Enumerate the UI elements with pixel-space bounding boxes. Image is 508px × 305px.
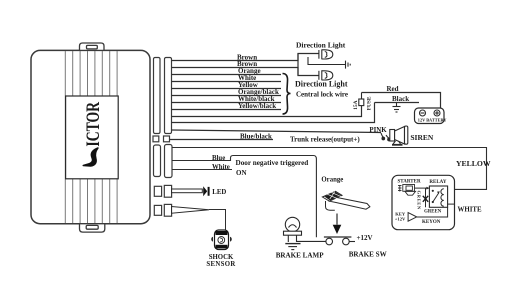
svg-text:White: White xyxy=(212,164,230,171)
svg-text:ICTOR: ICTOR xyxy=(82,101,104,147)
black wire to ground/battery xyxy=(375,102,420,104)
wire W8 yellow/black xyxy=(172,109,282,111)
svg-text:SHOCK: SHOCK xyxy=(209,254,234,261)
antenna wire (tapered) to shock sensor xyxy=(172,207,209,214)
svg-text:PINK: PINK xyxy=(369,127,387,134)
svg-text:FUSE: FUSE xyxy=(366,96,372,110)
svg-text:+12V: +12V xyxy=(357,234,373,242)
svg-text:LED: LED xyxy=(212,189,226,196)
wire W11 pink to siren xyxy=(172,130,382,133)
svg-text:Direction Light: Direction Light xyxy=(296,41,346,50)
wire W9 to fuse xyxy=(172,106,362,117)
brake switch SW1 xyxy=(297,237,356,245)
starter motor symbol xyxy=(398,185,416,196)
svg-text:Direction Light: Direction Light xyxy=(295,80,348,89)
svg-text:KEYON: KEYON xyxy=(422,220,441,225)
svg-text:+12V: +12V xyxy=(395,217,406,222)
wire W3 orange xyxy=(172,74,282,76)
lamp L1 (direction light) xyxy=(319,49,333,59)
wire W4 white xyxy=(172,81,282,83)
top mounting tab xyxy=(80,43,105,50)
wire labels xyxy=(237,53,360,143)
common rail + body ground T xyxy=(308,57,350,69)
siren LS1 xyxy=(381,126,408,145)
svg-text:Door negative triggered: Door negative triggered xyxy=(236,159,309,167)
svg-text:GREEN: GREEN xyxy=(424,209,442,214)
svg-text:Orange: Orange xyxy=(321,177,343,184)
svg-text:Yellow/black: Yellow/black xyxy=(238,102,276,110)
wire W1 brown (to direction light 1) xyxy=(170,54,382,140)
svg-text:BRAKE LAMP: BRAKE LAMP xyxy=(276,251,325,259)
lamp L2 (direction light) xyxy=(319,70,333,80)
connector pin pair (blue/black wire) xyxy=(153,136,159,142)
svg-text:ON: ON xyxy=(236,169,247,177)
connector block J1 (main harness, left column) xyxy=(153,58,172,217)
svg-text:Trunk release(output+): Trunk release(output+) xyxy=(290,136,360,144)
white wire ON xyxy=(172,169,232,171)
svg-text:GREEN: GREEN xyxy=(417,191,422,210)
wire W7 white/black xyxy=(172,102,282,104)
LED wire (outlined) xyxy=(172,189,203,193)
battery BT1 12V xyxy=(415,108,448,124)
blue wire (door trigger) xyxy=(172,148,487,238)
LED D1 symbol xyxy=(203,186,209,196)
wire W6 orange/black xyxy=(172,95,282,97)
svg-text:WHITE: WHITE xyxy=(458,206,483,213)
wire W10 to battery negative / black xyxy=(172,103,375,123)
svg-text:15A: 15A xyxy=(353,100,359,109)
ground symbol (battery black) xyxy=(393,103,401,113)
brake pedal symbol xyxy=(322,191,370,210)
VICTOR label xyxy=(66,96,119,179)
bottom mounting tab xyxy=(80,224,105,232)
wire W2 brown (to direction light 2) xyxy=(172,68,319,76)
fuse F1 15A xyxy=(359,93,364,106)
stylized V swoosh of VICTOR xyxy=(83,148,98,166)
relay unit box xyxy=(392,175,455,229)
connector pin pair LED xyxy=(154,186,161,196)
svg-text:Central lock wire: Central lock wire xyxy=(296,91,348,99)
wire W12 blue/black trunk release xyxy=(170,139,274,141)
svg-text:BRAKE SW: BRAKE SW xyxy=(349,250,387,258)
svg-text:SIREN: SIREN xyxy=(410,133,434,142)
svg-text:Blue/black: Blue/black xyxy=(240,132,272,140)
yellow wire to relay xyxy=(172,148,487,190)
svg-text:12V BATTERY: 12V BATTERY xyxy=(418,118,448,123)
wire W5 yellow xyxy=(172,88,282,90)
shock sensor SEN1 xyxy=(211,230,231,250)
connector block J2 (door/ignition) xyxy=(154,145,161,177)
green wire cut (X) xyxy=(425,188,427,207)
svg-text:YELLOW: YELLOW xyxy=(456,159,491,168)
brace for central lock wires xyxy=(283,74,291,115)
svg-text:RELAY: RELAY xyxy=(429,180,446,185)
relay K1 xyxy=(429,186,447,207)
wire starter to relay xyxy=(415,187,429,189)
connector pin pair antenna/sensor xyxy=(154,205,161,215)
red wire to battery + xyxy=(362,93,441,109)
svg-text:Black: Black xyxy=(392,95,409,103)
svg-text:Blue: Blue xyxy=(212,155,225,162)
main unit U1 (VICTOR alarm brain) xyxy=(31,50,150,223)
svg-text:Red: Red xyxy=(387,85,399,93)
unit ribs xyxy=(65,51,117,223)
svg-text:SENSOR: SENSOR xyxy=(206,261,235,268)
arrow from pedal to brake switch xyxy=(336,214,338,225)
svg-text:STARTER: STARTER xyxy=(398,180,421,185)
white stub xyxy=(448,203,455,205)
brake lamp symbol xyxy=(284,217,302,249)
